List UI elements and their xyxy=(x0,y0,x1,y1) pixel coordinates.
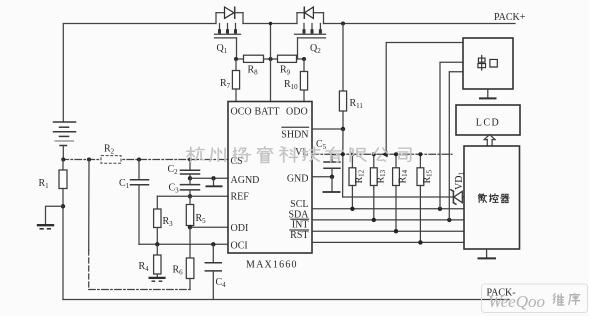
wire dash-dot CS rail xyxy=(62,159,228,161)
resistor R8 xyxy=(244,55,264,62)
box microcontroller xyxy=(464,146,520,249)
resistor R9 xyxy=(278,55,297,62)
node serial drop arrow junction xyxy=(384,152,388,156)
ground serial port xyxy=(487,89,489,98)
wire xyxy=(297,58,305,60)
svg-text:SCL: SCL xyxy=(290,199,308,210)
svg-text:INT: INT xyxy=(292,220,309,231)
watermark weeqoo box xyxy=(482,284,588,313)
wire serial port feed 3 xyxy=(449,72,463,220)
svg-text:BATT: BATT xyxy=(255,107,280,118)
ground left xyxy=(37,225,54,229)
node left drop junction xyxy=(87,158,91,162)
wire serial port feed 2 xyxy=(440,62,463,209)
transistor Q1 xyxy=(215,7,244,59)
resistor R3 xyxy=(156,196,158,209)
watermark company text xyxy=(187,147,411,163)
wire VD1 line xyxy=(343,196,453,198)
wire left drop column xyxy=(88,160,90,251)
svg-text:REF: REF xyxy=(231,192,250,203)
node R1 bottom junction xyxy=(61,204,65,208)
node ODI junction xyxy=(188,225,192,229)
wire SDA line xyxy=(312,219,464,221)
wire INT line xyxy=(312,230,464,232)
ground microcontroller xyxy=(486,249,488,258)
wire GND line xyxy=(312,176,332,178)
resistor R2 (dashed body) xyxy=(101,156,121,164)
svg-text:LCD: LCD xyxy=(476,118,501,129)
node C1 junction xyxy=(137,158,141,162)
svg-text:RST: RST xyxy=(290,230,308,241)
wire REF line xyxy=(157,195,228,197)
label 串口 glyphs xyxy=(478,56,497,71)
svg-text:SHDN: SHDN xyxy=(281,130,308,141)
svg-text:GND: GND xyxy=(287,174,309,185)
capacitor C3 xyxy=(189,178,191,184)
resistor R10 xyxy=(303,59,305,72)
watermark 维库 glyphs xyxy=(553,293,580,305)
capacitor C4 xyxy=(212,244,214,262)
svg-text:CS: CS xyxy=(231,156,243,167)
wire SCL line xyxy=(312,208,464,210)
ground GND stub xyxy=(331,177,333,192)
resistor R15 pull-up xyxy=(419,154,421,168)
node REF junction xyxy=(188,194,192,198)
wire BATT feed xyxy=(270,24,272,102)
svg-text:MAX1660: MAX1660 xyxy=(246,260,298,271)
diode VD1 zener xyxy=(451,172,466,205)
node battery junction xyxy=(61,158,65,162)
wire ODI line xyxy=(190,226,228,228)
wire OCI line xyxy=(157,243,228,245)
wire gate row xyxy=(236,58,244,60)
wire VL dash-dot rail xyxy=(312,153,452,155)
battery B1 xyxy=(54,122,76,160)
op-amp U1 MAX1660 IC body xyxy=(228,102,312,254)
wire top rail right segment to PACK+ xyxy=(324,23,516,25)
capacitor C5 xyxy=(331,154,333,161)
resistor R5 xyxy=(189,196,191,204)
box LCD xyxy=(456,105,520,135)
wire serial port feed 1 xyxy=(386,43,463,155)
resistor R7 xyxy=(235,59,237,71)
wire top rail mid segment xyxy=(243,23,297,25)
wire RST line xyxy=(312,241,464,243)
wire SHDN line xyxy=(312,128,343,130)
resistor R12 pull-up xyxy=(351,154,353,168)
wire to ground xyxy=(46,206,64,224)
capacitor C2 xyxy=(189,160,191,171)
resistor R14 pull-up xyxy=(395,154,397,168)
wire SHDN/R11 drop column xyxy=(342,129,344,197)
wire R5 bottom drop xyxy=(189,227,191,258)
node C2 chain junction xyxy=(188,158,192,162)
wire bottom PACK- rail xyxy=(63,299,509,301)
node gate junctions xyxy=(234,57,238,61)
svg-text:ODO: ODO xyxy=(286,107,308,118)
ground AGND stub xyxy=(213,178,215,186)
resistor R13 pull-up xyxy=(373,154,375,168)
node AGND junction xyxy=(188,176,192,180)
resistor R6 xyxy=(186,258,194,279)
box serial port xyxy=(463,38,513,89)
node AGND stub junction xyxy=(211,176,215,180)
svg-text:WeeQoo: WeeQoo xyxy=(488,292,545,311)
svg-text:ODI: ODI xyxy=(231,223,249,234)
wire bottom dash-dot run to R6 xyxy=(89,289,190,291)
label 微控器 glyphs xyxy=(478,194,509,203)
svg-text:PACK+: PACK+ xyxy=(494,12,526,23)
svg-text:AGND: AGND xyxy=(231,175,260,186)
wire top rail left segment xyxy=(63,24,216,123)
wire xyxy=(264,58,278,60)
transistor Q2 xyxy=(295,7,326,59)
svg-text:OCO: OCO xyxy=(231,107,252,118)
capacitor C1 xyxy=(138,160,140,180)
arrow LCD feed xyxy=(484,135,495,147)
wire AGND line xyxy=(190,177,228,179)
ground R4 xyxy=(149,277,166,279)
svg-text:OCI: OCI xyxy=(231,241,248,252)
resistor R1 xyxy=(62,160,64,171)
resistor R4 xyxy=(156,244,158,255)
resistor R11 xyxy=(341,22,345,26)
